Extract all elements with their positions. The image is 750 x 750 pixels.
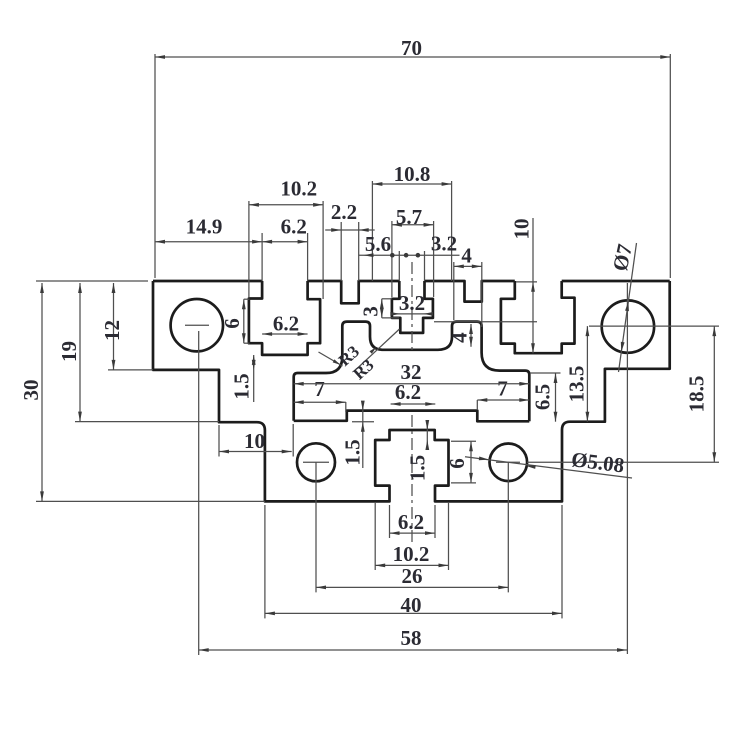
svg-text:6: 6 — [220, 318, 244, 329]
svg-text:13.5: 13.5 — [564, 366, 588, 403]
svg-text:6: 6 — [445, 458, 469, 469]
svg-text:10: 10 — [244, 429, 265, 453]
svg-text:10.2: 10.2 — [393, 542, 430, 566]
svg-text:3.2: 3.2 — [431, 231, 457, 255]
svg-text:10.8: 10.8 — [394, 162, 431, 186]
svg-text:1.5: 1.5 — [340, 439, 364, 465]
svg-text:70: 70 — [401, 36, 422, 60]
svg-text:4: 4 — [461, 243, 472, 267]
svg-text:10.2: 10.2 — [280, 176, 317, 200]
svg-text:14.9: 14.9 — [186, 214, 223, 238]
svg-text:4: 4 — [447, 332, 471, 343]
svg-text:3.2: 3.2 — [399, 291, 425, 315]
svg-text:6.5: 6.5 — [530, 384, 554, 410]
svg-text:1.5: 1.5 — [405, 455, 429, 481]
svg-text:5.6: 5.6 — [365, 232, 391, 256]
svg-text:5.7: 5.7 — [396, 205, 422, 229]
svg-text:10: 10 — [509, 219, 533, 240]
svg-text:32: 32 — [401, 360, 422, 384]
svg-text:6.2: 6.2 — [281, 214, 307, 238]
svg-text:40: 40 — [401, 593, 422, 617]
svg-text:18.5: 18.5 — [684, 376, 708, 413]
svg-text:6.2: 6.2 — [398, 510, 424, 534]
svg-text:3: 3 — [359, 306, 383, 317]
svg-text:7: 7 — [314, 377, 325, 401]
svg-text:12: 12 — [100, 320, 124, 341]
svg-text:58: 58 — [401, 626, 422, 650]
svg-text:26: 26 — [402, 564, 423, 588]
svg-text:2.2: 2.2 — [331, 200, 357, 224]
svg-text:6.2: 6.2 — [273, 311, 299, 335]
svg-text:30: 30 — [19, 380, 43, 401]
svg-text:7: 7 — [497, 376, 508, 400]
svg-text:19: 19 — [57, 341, 81, 362]
svg-text:1.5: 1.5 — [229, 373, 253, 399]
